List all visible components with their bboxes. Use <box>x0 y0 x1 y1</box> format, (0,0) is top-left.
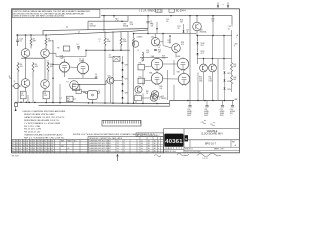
wire x105 <box>104 31 106 38</box>
transistor Q4 <box>41 80 50 89</box>
svg-text:81: 81 <box>12 148 14 150</box>
ground bus upper line <box>15 102 170 103</box>
svg-text:6-1: 6-1 <box>141 141 143 143</box>
svg-text:81: 81 <box>48 146 50 148</box>
diode ladder top wire <box>122 56 124 62</box>
svg-text:81: 81 <box>23 143 25 145</box>
capacitor C31 <box>206 101 208 106</box>
svg-text:81: 81 <box>23 146 25 148</box>
svg-text:R30: R30 <box>160 86 163 88</box>
svg-text:K1: K1 <box>67 82 69 84</box>
wire drop x128 <box>127 16 129 22</box>
diode CR9 <box>183 31 185 33</box>
svg-text:81: 81 <box>44 148 46 150</box>
resistor R14 drop <box>113 16 115 18</box>
revisions table <box>88 137 164 153</box>
svg-text:81: 81 <box>19 146 21 148</box>
svg-text:81: 81 <box>19 148 21 150</box>
svg-text:REF. D.C. VOLTAGES REF. CHS. C: REF. D.C. VOLTAGES REF. CHS. CODE NO. <box>24 136 65 139</box>
svg-text:.05: .05 <box>19 41 21 43</box>
wire stage q8q9 <box>147 29 149 34</box>
diode CR9c <box>122 97 124 99</box>
off-sheet arrow down 2 <box>227 2 229 7</box>
transistor Q2 <box>41 49 50 58</box>
wire x121 <box>120 31 122 38</box>
resistor R6 <box>47 62 49 63</box>
handwriting squiggle 1 <box>154 155 161 157</box>
svg-text:P.B. 3 02 D 1 7BB: P.B. 3 02 D 1 7BB <box>24 126 41 128</box>
svg-text:TRANSISTORS AND DIODES REPLACE: TRANSISTORS AND DIODES REPLACED <box>24 134 63 137</box>
wire x205 <box>203 59 205 64</box>
resistor R10 <box>120 38 122 46</box>
junction dots x53 <box>52 64 54 66</box>
svg-text:B1: B1 <box>154 146 156 148</box>
wire y58 right <box>198 58 232 60</box>
tube V2A <box>77 62 88 73</box>
box K1 <box>73 84 80 90</box>
diode CR13 <box>224 80 226 82</box>
svg-text:88: 88 <box>148 148 150 150</box>
svg-text:81: 81 <box>23 148 25 150</box>
transistor Q11 <box>200 64 208 72</box>
wire x128 long <box>127 31 129 103</box>
junction dots rail top <box>113 15 115 17</box>
wire M1 to bus <box>92 100 94 103</box>
size letter cell <box>185 135 188 141</box>
svg-text:81: 81 <box>27 143 29 145</box>
svg-text:-C31: -C31 <box>210 124 213 126</box>
motor M1 <box>88 90 98 99</box>
resistor R43 <box>231 75 233 84</box>
notice box <box>12 10 100 18</box>
wire R7 to bus <box>22 99 24 103</box>
svg-text:.05: .05 <box>158 47 160 49</box>
wire x105 low <box>104 50 106 103</box>
wire <box>122 78 124 83</box>
svg-text:88: 88 <box>148 150 150 152</box>
svg-text:81: 81 <box>44 141 46 143</box>
transistor Q13 <box>150 94 157 101</box>
wire x190 <box>189 16 191 101</box>
svg-text:6-1: 6-1 <box>141 150 143 152</box>
svg-text:81: 81 <box>34 143 36 145</box>
svg-text:81: 81 <box>30 146 32 148</box>
svg-text:81: 81 <box>41 148 43 150</box>
wire Q1 collector <box>25 35 27 49</box>
wire mid y84 <box>79 83 107 85</box>
svg-text:81: 81 <box>51 150 53 152</box>
svg-text:RESISTORS ARE 1/2W IN OHMS: RESISTORS ARE 1/2W IN OHMS <box>24 113 55 116</box>
resistor R3 <box>45 35 47 39</box>
svg-text:4-7: 4-7 <box>109 150 111 152</box>
svg-text:4-7: 4-7 <box>109 141 111 143</box>
svg-text:+B: +B <box>236 35 238 37</box>
svg-text:81: 81 <box>51 148 53 150</box>
svg-text:T2: T2 <box>135 94 137 96</box>
svg-text:2: 2 <box>236 37 237 39</box>
zone tick left B <box>9 77 12 79</box>
svg-text:REF: REF <box>61 141 64 143</box>
component box T1 <box>63 46 70 51</box>
wire Q1 down <box>25 58 27 78</box>
junction dot <box>121 20 123 22</box>
svg-text:R11: R11 <box>139 63 142 65</box>
svg-text:Q14: Q14 <box>200 30 203 32</box>
svg-text:470: 470 <box>21 95 24 97</box>
capacitor C4 <box>77 46 80 48</box>
svg-text:6-1: 6-1 <box>141 146 143 148</box>
transistor Q3 <box>21 79 30 88</box>
svg-text:81: 81 <box>48 141 50 143</box>
transistor Q1 <box>21 49 30 58</box>
ground bus right <box>170 100 235 102</box>
svg-text:81: 81 <box>41 150 43 152</box>
title block frame <box>163 129 165 153</box>
capacitor C32 <box>222 101 224 106</box>
svg-text:C7: C7 <box>99 39 101 41</box>
diode CR8 <box>122 76 124 78</box>
top margin tick <box>223 3 225 5</box>
wire V2 connections <box>82 58 84 62</box>
svg-text:4-7: 4-7 <box>109 143 111 145</box>
diode CR6-CR7 wire <box>122 64 124 69</box>
rail B dots <box>17 34 19 36</box>
wire <box>122 85 124 90</box>
wire Q3 down <box>25 87 27 91</box>
border frame <box>12 9 240 153</box>
wire V1 connections <box>53 63 60 65</box>
svg-text:.05: .05 <box>166 21 168 23</box>
svg-text:81: 81 <box>37 148 39 150</box>
wire q9 down <box>175 52 177 57</box>
capacitor C30 <box>189 101 191 106</box>
svg-text:R26: R26 <box>158 50 161 52</box>
svg-text:CR14: CR14 <box>227 89 231 91</box>
wire Q2 to T1 <box>49 52 56 54</box>
tube V4B <box>178 73 189 84</box>
svg-text:81: 81 <box>51 143 53 145</box>
off-sheet arrow down 1 <box>217 2 219 7</box>
wire <box>122 71 124 76</box>
wire x197 low <box>197 55 199 64</box>
svg-text:81: 81 <box>37 146 39 148</box>
svg-text:1N34A: 1N34A <box>123 25 129 28</box>
svg-text:7/6/76: 7/6/76 <box>202 158 209 160</box>
company logo block <box>164 134 183 147</box>
rail mid upper <box>88 20 128 22</box>
svg-text:100: 100 <box>160 88 163 90</box>
svg-text:R15: R15 <box>130 22 133 24</box>
svg-text:R16: R16 <box>151 24 154 26</box>
svg-text:81: 81 <box>34 141 36 143</box>
svg-text:81: 81 <box>19 143 21 145</box>
svg-text:81: 81 <box>30 150 32 152</box>
svg-text:UNLESS OTHERWISE SPECIFIED AMP: UNLESS OTHERWISE SPECIFIED AMPLIFIER: <box>23 110 67 113</box>
svg-text:.01: .01 <box>228 28 230 30</box>
svg-text:88: 88 <box>148 146 150 148</box>
svg-text:1MEG: 1MEG <box>48 41 54 43</box>
scale row <box>184 146 239 148</box>
svg-text:102: 102 <box>61 146 64 148</box>
diode CR10 <box>196 42 198 44</box>
capacitor C1A <box>17 35 19 40</box>
resistor R42 <box>231 63 233 72</box>
wire x197 top <box>196 16 198 23</box>
svg-text:81: 81 <box>48 150 50 152</box>
svg-text:.1: .1 <box>159 98 160 100</box>
svg-text:81: 81 <box>37 143 39 145</box>
svg-text:CR10: CR10 <box>201 43 205 45</box>
wire x218 <box>217 59 219 101</box>
svg-text:81: 81 <box>34 146 36 148</box>
wire x174 <box>173 60 175 75</box>
transistor Q8 <box>151 38 159 46</box>
wire x167 <box>167 70 169 100</box>
title row line <box>184 139 239 141</box>
svg-text:6-1: 6-1 <box>141 143 143 145</box>
diode CR9b <box>122 90 124 92</box>
svg-text:2-1: 2-1 <box>117 146 119 148</box>
svg-text:C8.2: C8.2 <box>201 45 205 47</box>
svg-text:81: 81 <box>51 141 53 143</box>
svg-text:88: 88 <box>148 143 150 145</box>
svg-text:RESISTANCE VALUES ARE 1/4 W, 5: RESISTANCE VALUES ARE 1/4 W, 5% <box>24 119 59 122</box>
svg-text:V4B: V4B <box>177 72 180 74</box>
svg-text:6-1: 6-1 <box>141 148 143 150</box>
diode CR14 <box>224 88 226 90</box>
cap polarity marks <box>204 119 207 122</box>
transistor Q7 <box>151 91 159 99</box>
svg-text:81: 81 <box>27 146 29 148</box>
svg-text:81: 81 <box>44 143 46 145</box>
svg-text:.01: .01 <box>186 32 188 34</box>
svg-text:+: + <box>230 115 231 117</box>
svg-text:B1: B1 <box>154 143 156 145</box>
wire y50 <box>86 49 130 51</box>
svg-text:81: 81 <box>41 141 43 143</box>
wire to bus <box>122 99 124 103</box>
svg-text:RE 4467: RE 4467 <box>12 155 19 157</box>
wire x224 upper <box>223 36 225 71</box>
svg-text:81: 81 <box>37 141 39 143</box>
wire x33 to bus <box>32 79 34 102</box>
svg-text:C8.2: C8.2 <box>201 53 205 55</box>
diode CR11 <box>196 53 198 55</box>
box X1 <box>113 56 120 61</box>
svg-text:CR8: CR8 <box>125 93 128 95</box>
wire x133 long <box>133 34 135 39</box>
svg-text:81: 81 <box>48 148 50 150</box>
svg-text:81: 81 <box>48 143 50 145</box>
svg-text:Q13: Q13 <box>161 96 164 98</box>
svg-text:CR11: CR11 <box>201 51 205 53</box>
svg-text:4-7: 4-7 <box>109 146 111 148</box>
svg-text:81: 81 <box>23 141 25 143</box>
svg-text:P.B. 01 02 D 1 JPB: P.B. 01 02 D 1 JPB <box>24 129 42 131</box>
input jack J1 <box>14 83 19 88</box>
transistor Q8b <box>132 41 138 47</box>
svg-text:81: 81 <box>19 141 21 143</box>
wire tube columns <box>156 70 158 73</box>
svg-text:C4: C4 <box>77 44 79 46</box>
svg-text:40361: 40361 <box>165 139 183 145</box>
svg-text:81: 81 <box>27 148 29 150</box>
transistor Q9 <box>172 44 181 53</box>
svg-text:SERVICE WORK IS DONE. SEE PART: SERVICE WORK IS DONE. SEE PARTS LIST AND… <box>13 15 65 18</box>
svg-text:DWG 103-0184 (REF): DWG 103-0184 (REF) <box>185 151 201 153</box>
svg-text:C5: C5 <box>95 74 97 76</box>
rail B sloped <box>16 30 148 35</box>
wire Q2 down <box>44 58 46 79</box>
svg-text:2N3055: 2N3055 <box>161 98 167 100</box>
wire x60 <box>59 84 61 103</box>
svg-text:81: 81 <box>12 150 14 152</box>
svg-text:1 2 3 4 5 6: 1 2 3 4 5 6 <box>165 148 172 150</box>
wire bottom mid <box>142 97 151 99</box>
svg-text:2-1: 2-1 <box>117 141 119 143</box>
tube V3A <box>151 58 162 69</box>
svg-text:81: 81 <box>37 150 39 152</box>
wire y78 <box>68 77 90 79</box>
rail A sloped <box>43 29 148 35</box>
wire x232 upper <box>231 24 233 27</box>
svg-text:.1: .1 <box>99 41 100 43</box>
resistor R9 <box>104 38 106 46</box>
svg-text:10W: 10W <box>209 81 213 83</box>
svg-text:V3B: V3B <box>149 72 152 74</box>
resistor box R12 <box>138 78 145 83</box>
wire L1 <box>73 98 76 100</box>
capacitor C15 <box>154 48 157 50</box>
svg-text:2-1: 2-1 <box>117 150 119 152</box>
wire x232 low <box>231 72 233 76</box>
svg-text:4-7: 4-7 <box>109 148 111 150</box>
diode chain wires <box>224 73 226 79</box>
wire x157 top <box>156 22 158 34</box>
wire x113 <box>112 31 114 50</box>
diode CR9a <box>122 83 124 85</box>
parts table left <box>12 139 88 152</box>
svg-text:81: 81 <box>41 146 43 148</box>
svg-text:OUT: OUT <box>67 100 70 102</box>
connector L1 <box>76 89 81 93</box>
inductor L2 <box>142 52 144 61</box>
wire x213 <box>212 16 214 36</box>
svg-text:C23: C23 <box>186 30 189 32</box>
svg-text:C10: C10 <box>166 19 169 21</box>
svg-text:81: 81 <box>16 143 18 145</box>
terminal strip TB1 <box>102 120 141 126</box>
svg-text:81: 81 <box>34 150 36 152</box>
diode CR6 <box>122 62 124 64</box>
wire x197 mid <box>196 31 198 36</box>
diode CR12 <box>224 72 226 74</box>
diode CR7 <box>122 69 124 71</box>
svg-text:470: 470 <box>181 44 184 46</box>
ground lug box <box>15 103 18 107</box>
capacitor C9 on drop x148 <box>147 16 149 21</box>
svg-text:R40: R40 <box>199 77 202 79</box>
svg-text:81: 81 <box>16 146 18 148</box>
tube V4A <box>177 58 188 69</box>
dwg no row <box>189 140 191 147</box>
bus junction dots <box>20 102 22 104</box>
wire x18 x28 to bus <box>17 79 19 102</box>
wire drop x88 <box>87 21 89 30</box>
svg-text:C15: C15 <box>158 45 161 47</box>
svg-text:1N4148: 1N4148 <box>90 26 96 28</box>
svg-text:Q05: Q05 <box>108 76 111 78</box>
wire emitters <box>25 56 27 59</box>
svg-text:L2: L2 <box>137 50 139 52</box>
svg-text:.047: .047 <box>146 52 149 54</box>
svg-text:12AX7: 12AX7 <box>79 60 84 63</box>
svg-text:81: 81 <box>51 146 53 148</box>
svg-text:81: 81 <box>30 141 32 143</box>
wire between diodes <box>197 44 199 53</box>
svg-text:R41: R41 <box>209 77 212 79</box>
resistor R4 <box>17 62 19 63</box>
handwriting date <box>197 153 221 156</box>
svg-text:R18: R18 <box>180 19 183 21</box>
svg-text:81: 81 <box>30 148 32 150</box>
svg-text:81: 81 <box>12 143 14 145</box>
wire <box>122 92 124 97</box>
arrow up annotation <box>117 156 119 161</box>
capacitor C5 <box>90 77 95 79</box>
svg-text:.68: .68 <box>47 63 49 65</box>
wire y35 right <box>197 35 232 37</box>
capacitor C33 <box>232 101 234 106</box>
svg-text:B1: B1 <box>154 141 156 143</box>
svg-text:81: 81 <box>12 146 14 148</box>
wire Q5 out <box>114 80 123 82</box>
transistor Q10 <box>193 22 202 31</box>
svg-text:-C30: -C30 <box>201 122 204 124</box>
resistor R2 <box>30 35 32 39</box>
wire drop x53 <box>52 40 54 103</box>
wire drop x104 <box>103 16 105 32</box>
svg-text:R12: R12 <box>139 76 142 78</box>
wire R8 to bus <box>45 99 47 103</box>
svg-text:.02: .02 <box>95 76 97 78</box>
ground bus lower line <box>39 105 170 108</box>
svg-text:10W: 10W <box>199 81 203 83</box>
svg-text:C = IN PICOFARADS, K = X1000 O: C = IN PICOFARADS, K = X1000 OHMS <box>24 122 61 125</box>
svg-text:L-1: L-1 <box>60 98 62 100</box>
tube V1A <box>60 62 70 72</box>
resistor box R7 <box>21 91 27 99</box>
svg-text:R31: R31 <box>146 91 149 93</box>
svg-text:BLK: BLK <box>67 98 70 100</box>
rail end corner right <box>231 16 233 24</box>
svg-text:R42: R42 <box>233 64 236 66</box>
svg-text:470: 470 <box>20 66 23 68</box>
svg-text:81: 81 <box>16 148 18 150</box>
svg-text:BC-204 4: BC-204 4 <box>176 11 186 13</box>
wire x113 low <box>112 61 114 103</box>
svg-text:81: 81 <box>30 143 32 145</box>
svg-text:R9: R9 <box>57 47 59 49</box>
handwriting squiggle 2 <box>177 153 189 156</box>
svg-text:P.B. 04 02 3 1 J02: P.B. 04 02 3 1 J02 <box>24 132 41 134</box>
svg-text:CR12: CR12 <box>227 73 231 75</box>
wire tube rows <box>145 66 152 67</box>
svg-text:88: 88 <box>148 141 150 143</box>
svg-text:B1: B1 <box>154 150 156 152</box>
svg-text:CR6: CR6 <box>125 65 128 67</box>
transistor Q12 <box>209 64 217 72</box>
